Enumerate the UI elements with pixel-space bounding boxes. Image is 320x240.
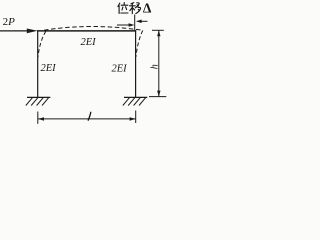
arrowhead h dim top [157,30,160,36]
svg-text:2EI: 2EI [112,64,128,75]
arrowhead displacement dim left [129,23,135,27]
arrowhead h dim bottom [157,91,160,97]
wire: displacement dim left arrow shaft [117,24,130,26]
left column [37,30,39,97]
wire: right extension line below support [135,111,137,124]
arrowhead l dim right [130,117,136,121]
arrowhead l dim left [38,117,44,121]
label l (span dimension) [88,112,91,120]
wire: left extension line below support [37,112,39,124]
left fixed support ground line [27,96,50,98]
arrowhead displacement dim right [136,20,142,24]
dashed deflected left column curve [38,31,46,57]
hanzi 位 (of 位移) [118,3,128,14]
wire: load 2P arrow shaft [0,30,30,32]
svg-text:2EI: 2EI [41,63,57,74]
svg-text:2P: 2P [3,16,16,28]
right support hatch strokes [123,98,130,106]
right column [135,30,137,97]
svg-text:Δ: Δ [143,1,152,16]
height dimension line h [158,30,160,96]
wire: extension line above right column top [134,15,136,31]
wire: displacement dim right arrow shaft [141,20,148,22]
arrowhead of load 2P [27,29,38,34]
svg-text:2EI: 2EI [81,37,97,48]
paper background [0,0,178,137]
right fixed support ground line [124,96,147,98]
span dimension line l [38,118,136,120]
wire: h dim bottom crossbar [149,96,166,98]
svg-text:h: h [149,64,160,69]
hanzi 移 (of 位移) [130,3,141,14]
beam (top girder) [37,30,136,32]
left support hatch strokes [26,98,33,106]
wire: h dim top crossbar [152,29,164,31]
dashed deflected beam curve [44,27,142,31]
dashed deflected right column curve [136,30,143,57]
